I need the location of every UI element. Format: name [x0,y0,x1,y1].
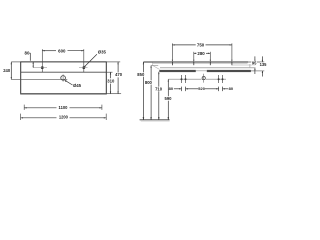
dimension 240 (back edge to drain) [11,61,20,63]
dimension 310 (ledge to front) [106,71,112,73]
svg-text:280: 280 [197,51,205,56]
back ledge line [21,71,107,73]
dimension 850 (rim height) [142,62,144,120]
left end edge [152,62,154,65]
svg-text:135: 135 [260,62,268,67]
svg-text:520: 520 [198,86,205,91]
dimension 1100 (fixing holes) [23,105,25,110]
dimension 280 (inner fixing) [193,52,195,60]
svg-text:1200: 1200 [59,115,69,120]
basin front edge [20,93,107,95]
svg-text:Ø45: Ø45 [73,83,82,88]
right end edge [249,64,251,67]
drain hole D45 [61,76,66,81]
svg-text:95: 95 [252,61,257,66]
dimension 135 (apron height) [261,56,263,62]
svg-text:80: 80 [25,51,30,56]
outlet centerline [168,78,201,80]
dimension 1200 (overall width) [20,114,22,120]
svg-text:80: 80 [169,86,174,91]
svg-text:1100: 1100 [59,105,69,110]
dimension 590 (outlet height) [167,79,169,120]
fixing bolt crosses [181,75,183,83]
top line extension to 95/135 dims [248,61,264,63]
dimension 710 [158,72,160,120]
basin front apron bold right [207,70,251,72]
dimension 470 (full depth) [106,61,120,63]
dimension 95 (end height) [254,56,256,62]
svg-text:600: 600 [58,48,66,53]
svg-text:470: 470 [115,72,123,77]
slab underside line [160,67,256,69]
dimension 800 [150,66,152,120]
faucet hole right [82,66,85,69]
apron bottom extension to 135 dim [251,70,264,72]
dimension 600 between tap holes [41,49,43,72]
svg-text:590: 590 [165,96,173,101]
svg-text:710: 710 [155,86,163,91]
svg-text:800: 800 [145,80,153,85]
leader to D45 text [65,80,73,85]
svg-text:240: 240 [3,68,11,73]
svg-text:Ø35: Ø35 [98,49,107,54]
apron edge in middle gap [196,70,207,72]
svg-text:850: 850 [137,72,145,77]
floor line [140,119,170,121]
faucet hole left [41,66,44,69]
basin front apron bold left [159,70,196,72]
faucet hole centerlines [33,67,47,69]
trap / outlet symbol [202,77,205,80]
svg-text:750: 750 [197,43,205,48]
inner line near right end [232,64,256,66]
dimension 750 (outer fixing) [171,43,173,60]
slab top line [143,61,248,63]
tap hole marks on slab [171,62,173,65]
svg-text:80: 80 [229,86,234,91]
basin outer rectangle [21,62,107,94]
svg-text:310: 310 [107,78,115,83]
